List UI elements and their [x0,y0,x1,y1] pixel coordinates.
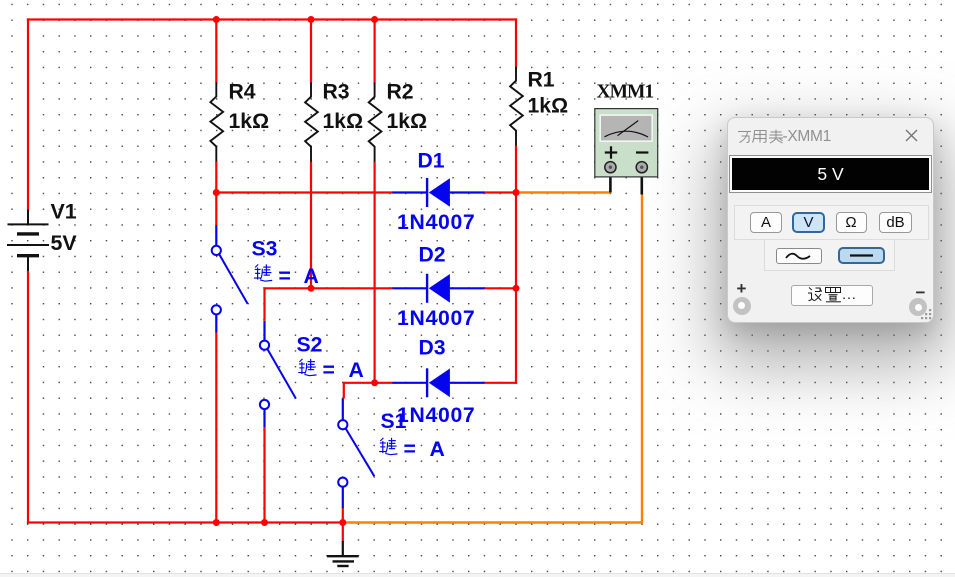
bottom edge strip [0,574,955,577]
button AC (sine) [776,248,822,264]
svg-text:D3: D3 [419,337,446,360]
panel minus sign [916,283,926,303]
multimeter panel window 万用表-XMM1 [727,117,934,323]
wire: D2 row [265,288,518,321]
panel terminal minus [909,298,927,316]
svg-text:R2: R2 [387,80,414,103]
置 [826,288,841,293]
panel terminal plus [733,297,751,315]
svg-text:=: = [323,359,335,382]
svg-text:1kΩ: 1kΩ [528,95,569,118]
panel title [737,128,783,144]
button V (selected) [792,212,825,233]
panel plus sign [737,279,747,299]
设 [809,288,812,291]
button dB [879,212,912,233]
svg-text:A: A [430,438,445,461]
ground [327,541,359,566]
wire: S2 column lower [263,427,265,523]
panel display [729,155,932,193]
wire: orange multimeter minus lead down and across bottom [343,194,642,523]
svg-text:1N4007: 1N4007 [397,307,475,330]
svg-text:S3: S3 [252,238,278,261]
svg-text:A: A [304,265,319,288]
wire: R4 column [215,20,217,523]
diode D2 [393,274,485,303]
wire: right column R1 to D3 corner [515,18,517,384]
svg-text:1kΩ: 1kΩ [323,110,364,133]
wire: orange multimeter plus lead horizontal [517,191,610,193]
switch S1 [338,399,374,509]
panel waveform group box [764,240,896,271]
wire: top rail from V1 to R1 corner [28,20,517,21]
label S2 key (键 = A) [298,359,316,376]
resistor R3 [305,83,318,162]
万 [738,131,751,133]
svg-text:1kΩ: 1kΩ [387,110,428,133]
wire: ground stub [342,523,344,542]
svg-text:S1: S1 [381,410,407,433]
label S1 key (键 = A) [379,438,397,455]
svg-text:D2: D2 [419,244,446,267]
battery V1 [7,210,49,272]
button Ω [836,212,867,233]
svg-text:5V: 5V [51,231,78,255]
svg-text:1N4007: 1N4007 [397,404,475,427]
panel mode group box [734,205,929,240]
wire: left rail V1 column [27,18,29,523]
wire: D1 row [215,191,517,193]
svg-text:S2: S2 [297,334,323,357]
svg-text:V1: V1 [51,200,77,224]
diode D1 [393,178,485,207]
svg-text:D1: D1 [418,150,445,173]
switch S3 [212,225,248,333]
multimeter XMM1 icon [595,109,658,195]
diode D3 [393,368,485,397]
表 [770,131,781,133]
node: junction dots [213,16,520,526]
用 [754,131,766,143]
svg-text:R1: R1 [528,69,555,92]
svg-text:R3: R3 [323,80,350,103]
resistor R2 [369,83,382,162]
wire: S1 column lower [342,508,344,524]
svg-text:A: A [349,359,364,382]
button 设置... [791,285,873,306]
wire: bottom rail red [27,521,343,523]
svg-text:1kΩ: 1kΩ [229,110,270,133]
switch S2 [260,321,296,428]
svg-text:XMM1: XMM1 [597,82,654,103]
panel resize grip [921,309,933,321]
svg-text:=: = [404,438,416,461]
panel close X [905,129,918,142]
resistor R1 [510,67,523,146]
wire: R2 column [374,20,376,383]
svg-text:1N4007: 1N4007 [397,211,475,234]
svg-text:R4: R4 [229,80,256,103]
button DC (selected) [838,247,885,264]
label S3 key (键 = A) [254,264,272,281]
wire: R3 column [310,20,312,289]
wire: D3 row [344,383,517,399]
button A [750,212,782,233]
svg-text:=: = [279,265,291,288]
resistor R4 [210,82,223,161]
